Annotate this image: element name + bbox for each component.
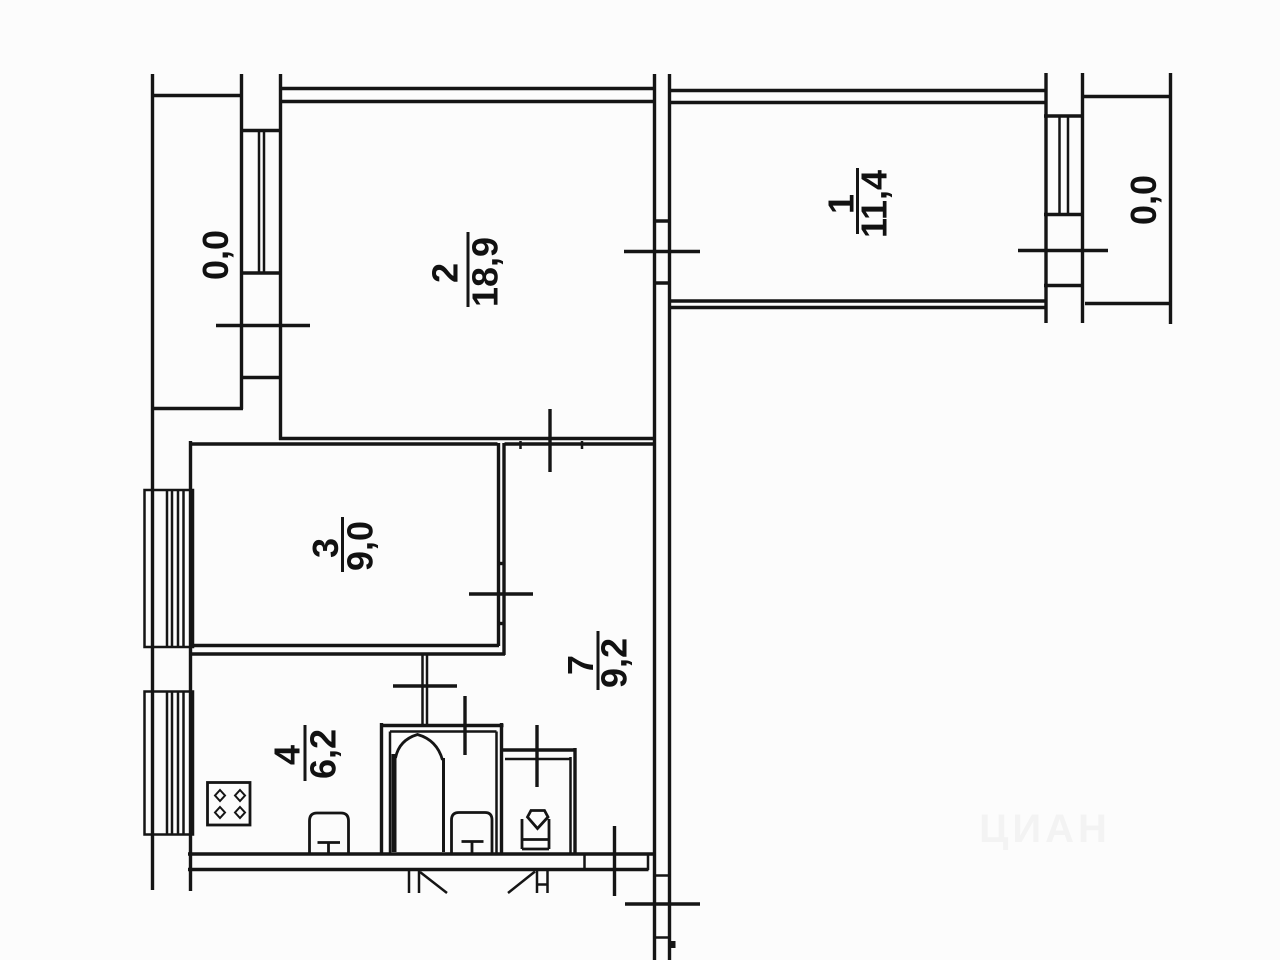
door D-entry leaf — [613, 826, 616, 896]
stove frame — [208, 783, 251, 826]
door D-balc1 leaf — [1018, 249, 1108, 252]
bathtub left edge — [392, 754, 397, 852]
wall left outer — [151, 74, 154, 890]
wall room1-balcony left — [1044, 73, 1047, 323]
stair door jamb a1 — [408, 871, 411, 893]
wall room1 top inner — [671, 101, 1045, 104]
wall bath outer left — [380, 723, 383, 854]
wall kitchen-corridor b — [426, 655, 429, 724]
wall kitchen-corridor a — [421, 655, 424, 724]
svg-text:9,0: 9,0 — [340, 521, 381, 571]
kitchen sink stem — [327, 843, 330, 854]
svg-text:6,2: 6,2 — [303, 729, 344, 779]
wall room3 left — [189, 441, 192, 891]
wall bath inner right — [495, 732, 498, 855]
svg-text:18,9: 18,9 — [465, 237, 506, 307]
wall wc right inner — [569, 757, 572, 854]
stair door jamb b1 — [536, 871, 539, 893]
wc basin body bottom — [522, 848, 549, 851]
label corridor fraction bar — [597, 631, 600, 690]
stair door crossbar — [537, 883, 548, 886]
wall wc top outer — [501, 748, 577, 751]
door D27 leaf — [548, 409, 551, 472]
bathtub right edge — [442, 758, 445, 852]
door D-wc leaf — [535, 725, 538, 787]
stove burner 3 — [215, 807, 225, 818]
label room3 fraction bar — [341, 517, 344, 572]
wall room2 bottom upper — [279, 437, 655, 440]
wall room1 bottom lower — [671, 306, 1046, 309]
bathtub arch — [396, 735, 443, 761]
door D-balc2 leaf — [216, 324, 310, 327]
wall room3 bottom lower — [189, 652, 505, 655]
door D-balc1 jamb — [1044, 284, 1084, 287]
stove burner 2 — [235, 790, 245, 801]
shaft long line — [625, 902, 700, 905]
wall central shaft left — [653, 74, 656, 960]
wall room1-balcony right — [1081, 73, 1084, 323]
window W1 sill top — [1044, 114, 1084, 117]
window W2 sill top — [240, 129, 281, 132]
wall room3 right inner — [497, 443, 500, 646]
wall bath inner left — [389, 732, 392, 855]
wall right balcony side — [1169, 73, 1172, 324]
wc basin body right — [548, 819, 551, 849]
toilet T1 bowl — [452, 813, 493, 854]
stove burner 1 — [215, 790, 225, 801]
wall balcony-room2 left — [240, 74, 243, 409]
wall right balcony bottom — [1085, 302, 1172, 305]
window W4 panes — [166, 692, 169, 835]
stair door swing a — [420, 872, 447, 893]
wall entry band lower — [188, 868, 649, 871]
wall central shaft right — [668, 74, 671, 960]
wc basin body left — [521, 819, 524, 849]
label room1 fraction bar — [856, 168, 859, 234]
window W2 pane line a — [258, 131, 261, 274]
door D37 jamb top — [497, 562, 506, 565]
shaft tick bottom — [653, 936, 671, 939]
wall entry band upper — [188, 852, 655, 855]
wall bath outer top — [380, 724, 504, 727]
door D-balc2 jamb — [241, 376, 281, 379]
wall balcony top — [151, 94, 242, 97]
wall room2 top outer — [279, 87, 655, 90]
window W4 frame — [145, 692, 194, 835]
door D12 jamb bottom — [653, 281, 671, 284]
stove burner 4 — [235, 807, 245, 818]
wall bath outer right — [500, 723, 503, 854]
svg-text:9,2: 9,2 — [594, 638, 635, 688]
svg-text:ЦИАН: ЦИАН — [979, 807, 1111, 851]
wall balcony-room2 right — [279, 74, 282, 440]
door D37 leaf — [469, 592, 533, 595]
door D12 leaf — [624, 250, 700, 253]
wall bath inner top — [390, 730, 497, 733]
svg-text:4: 4 — [267, 745, 308, 765]
wall room3 bottom upper — [189, 644, 499, 647]
svg-text:11,4: 11,4 — [854, 170, 895, 238]
door D-bath leaf — [463, 696, 466, 755]
door D47 leaf — [393, 684, 457, 687]
wall entry band divider — [583, 854, 586, 870]
window W2 sill bottom — [240, 271, 281, 274]
window W3 panes — [166, 490, 169, 647]
kitchen sink bowl — [310, 813, 349, 853]
svg-text:0,0: 0,0 — [195, 230, 236, 280]
label room2 fraction bar — [467, 232, 470, 307]
toilet T1 seat line — [462, 840, 484, 843]
wall right balcony top — [1083, 95, 1172, 98]
label kitchen fraction bar — [304, 725, 307, 781]
shaft tick top — [653, 874, 671, 877]
door D37 jamb bottom — [497, 622, 506, 625]
wc basin pentagon — [528, 811, 549, 829]
door D27 jamb left — [519, 441, 522, 449]
wall room3 right outer — [502, 443, 505, 655]
window W2 pane line b — [263, 131, 266, 274]
wall wc right outer — [573, 748, 576, 854]
window W1 sill bottom — [1044, 213, 1084, 216]
wall room1 bottom upper — [671, 299, 1046, 302]
stair door jamb a2 — [418, 871, 421, 893]
wall entry band end — [647, 854, 650, 870]
wall balcony bottom — [151, 407, 243, 410]
wall wc top inner — [505, 758, 571, 761]
stair door swing b — [508, 872, 535, 894]
shaft blob — [670, 941, 676, 948]
window W1 pane line a — [1058, 116, 1061, 215]
window W1 pane line b — [1067, 116, 1070, 215]
stair door jamb b2 — [546, 871, 549, 893]
svg-text:0,0: 0,0 — [1123, 175, 1164, 225]
svg-text:2: 2 — [425, 263, 466, 283]
wall room1 top outer — [668, 89, 1047, 92]
toilet T1 stem — [471, 842, 474, 854]
window W3 frame — [145, 490, 194, 647]
wall room2 top inner — [279, 100, 655, 103]
wall room2 bottom lower right — [505, 442, 656, 445]
door D12 jamb top — [653, 219, 671, 222]
wc basin inner line — [522, 838, 549, 841]
wall room2 bottom lower left — [189, 442, 498, 445]
door D27 jamb right — [581, 441, 584, 449]
kitchen sink line — [318, 841, 341, 844]
